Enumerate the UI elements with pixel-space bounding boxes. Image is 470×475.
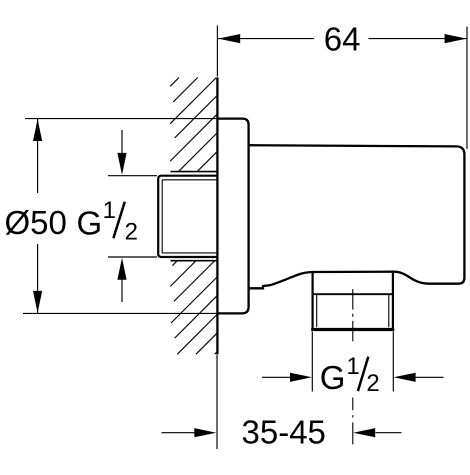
svg-text:35-45: 35-45 [242,414,326,451]
dim D50: top extension line [25,118,217,120]
dim 64: dimension line right segment [369,38,467,40]
outlet bottom face (thick) [311,328,394,331]
svg-text:G: G [320,359,346,396]
svg-text:2: 2 [125,219,138,246]
svg-text:1: 1 [103,197,116,224]
dim 64: left arrow [218,34,240,43]
outlet thread dim: left extension line [311,332,313,392]
dim 35-45: wall face extension line [216,355,218,449]
outlet thread dim: left shaft and arrow (points right) [262,376,291,378]
svg-text:1: 1 [346,353,359,380]
outlet boss / thread outer right line [392,272,394,329]
dim 35-45: left shaft and arrow (points right) [162,432,196,434]
dim 64: right arrow [445,34,467,43]
wall plate (escutcheon) outline [218,119,249,314]
dim D50: dimension line upper segment [37,119,39,193]
wall hole top edge [171,171,217,173]
dim 64: dimension line left segment [218,38,314,40]
svg-text:64: 64 [324,20,361,57]
svg-text:2: 2 [366,370,379,397]
outlet centerline (dash-dot) lower [352,398,354,450]
outlet centerline (dash-dot) upper [352,289,354,346]
outlet thread dim: right extension line [392,332,394,392]
dim 35-45: right shaft and arrow (points left) [376,432,402,434]
dim 64: left extension line [216,26,218,77]
wall hole bottom edge [171,260,217,262]
inlet thread G1/2 (back connector) outline [158,176,217,257]
outlet thread start line [312,293,394,295]
inlet thread root lines [161,180,163,253]
outlet boss / thread outer left line [312,272,314,328]
dim D50: bottom arrow [33,291,42,313]
inlet thread dim: bottom extension line [108,256,157,258]
inlet thread dim: top extension line [108,175,157,177]
wall section hatch [170,78,217,355]
outlet thread dim: right shaft and arrow (points left) [415,376,444,378]
dim 64: right extension line [466,27,468,150]
dim D50: top arrow [33,119,42,141]
dim D50: bottom extension line [23,312,217,314]
svg-text:Ø50: Ø50 [5,204,67,241]
inlet thread dim: bottom arrow (points up) [121,278,123,302]
elbow body outline [249,145,465,288]
wall face line [216,78,218,355]
svg-text:G: G [77,205,103,242]
dim D50: dimension line lower segment [37,244,39,313]
outlet thread root lines [316,295,318,327]
inlet thread dim: top arrow (points down) [121,130,123,155]
